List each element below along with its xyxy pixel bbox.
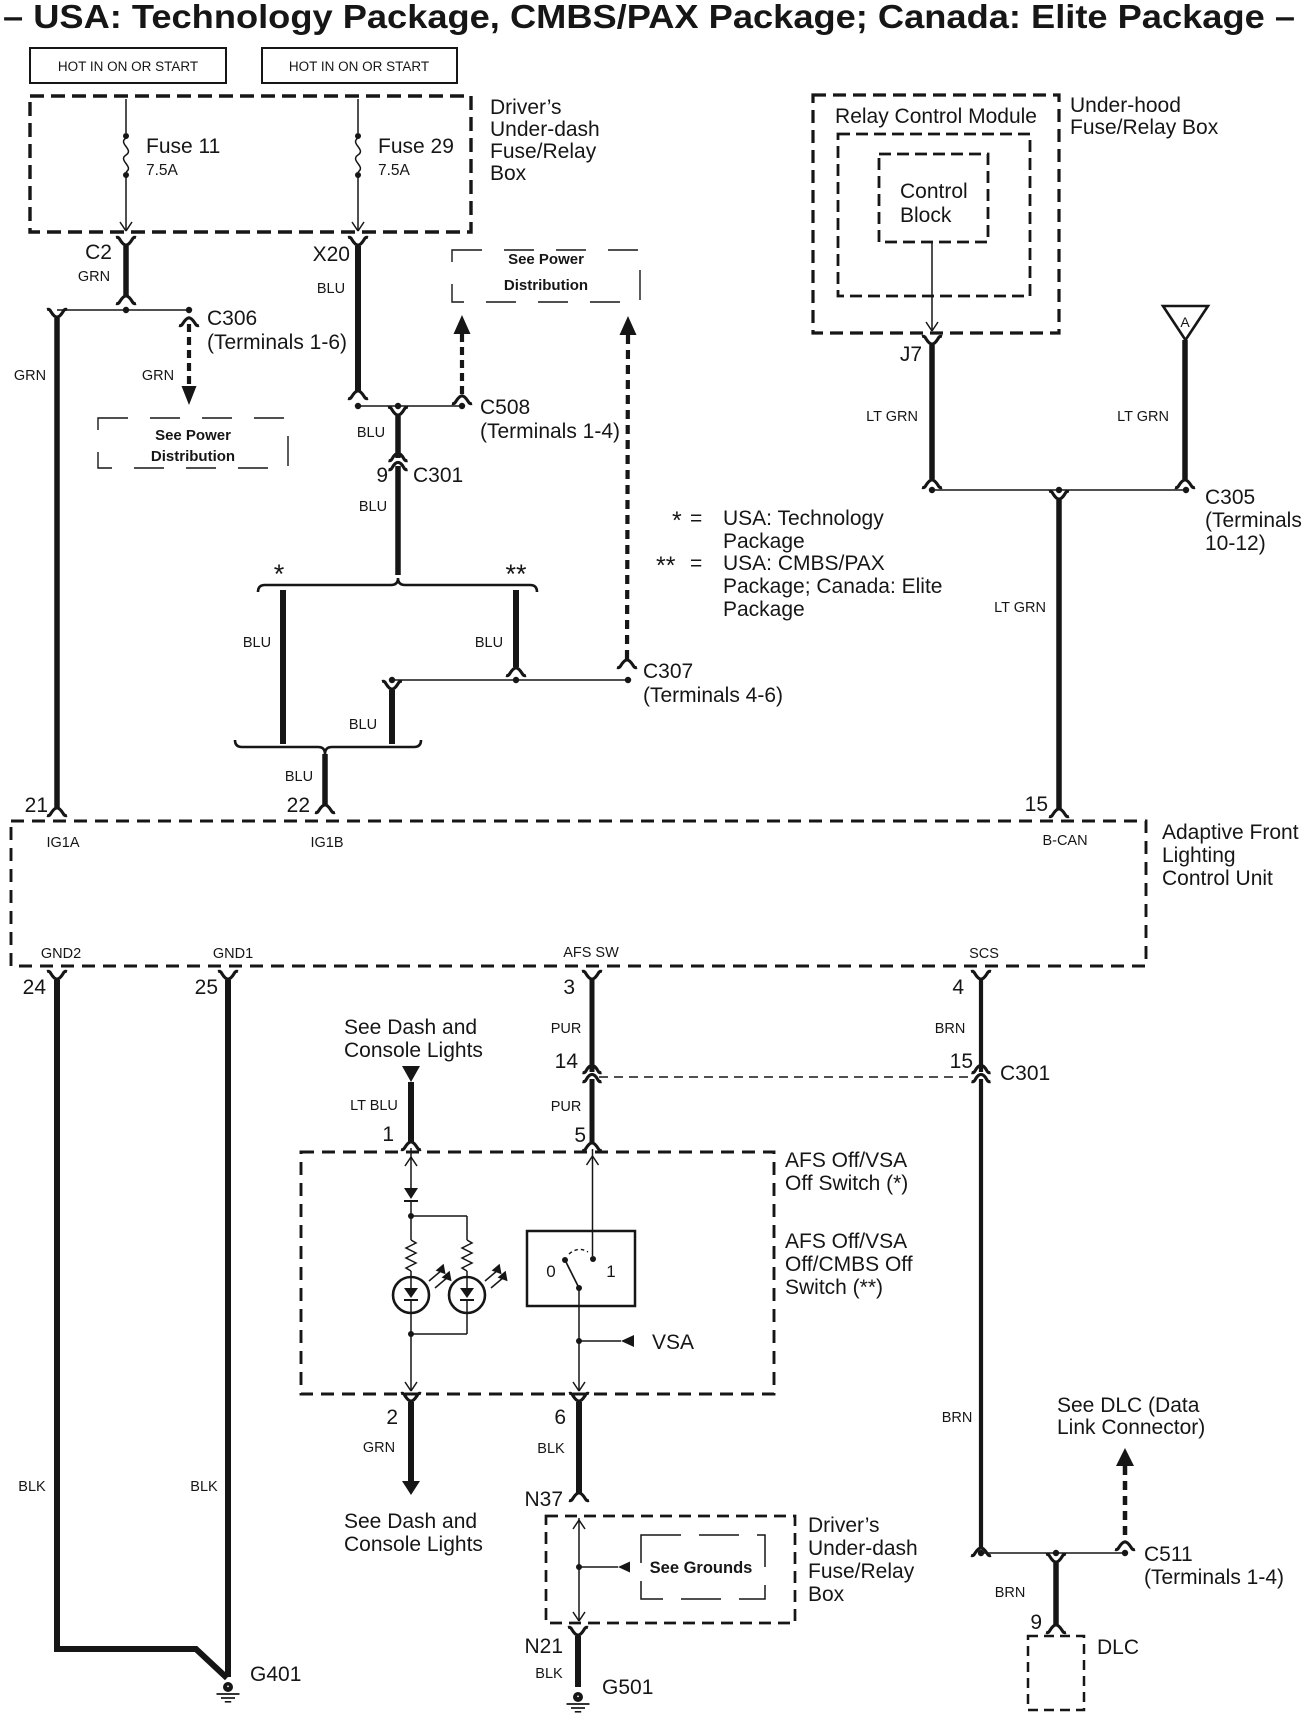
svg-text:**: ** bbox=[505, 559, 527, 589]
svg-text:N37: N37 bbox=[524, 1488, 563, 1511]
svg-text:0: 0 bbox=[546, 1262, 555, 1281]
svg-text:C305: C305 bbox=[1205, 486, 1255, 509]
svg-text:C301: C301 bbox=[413, 464, 463, 487]
svg-text:Driver’s: Driver’s bbox=[808, 1514, 880, 1537]
svg-text:Fuse 11: Fuse 11 bbox=[146, 135, 220, 158]
svg-text:Lighting: Lighting bbox=[1162, 844, 1236, 867]
svg-text:BLU: BLU bbox=[349, 717, 377, 733]
svg-text:Package; Canada: Elite: Package; Canada: Elite bbox=[723, 575, 942, 598]
svg-text:24: 24 bbox=[23, 976, 47, 999]
svg-text:See Power: See Power bbox=[508, 251, 584, 268]
svg-text:Under-hood: Under-hood bbox=[1070, 94, 1181, 117]
svg-text:C301: C301 bbox=[1000, 1062, 1050, 1085]
svg-text:HOT IN ON OR START: HOT IN ON OR START bbox=[289, 59, 429, 74]
svg-text:Package: Package bbox=[723, 530, 805, 553]
svg-text:25: 25 bbox=[195, 976, 218, 999]
svg-text:C2: C2 bbox=[85, 241, 112, 264]
svg-text:Fuse/Relay: Fuse/Relay bbox=[808, 1560, 915, 1583]
svg-text:BLK: BLK bbox=[535, 1666, 563, 1682]
svg-text:IG1A: IG1A bbox=[46, 835, 79, 851]
svg-text:See Dash and: See Dash and bbox=[344, 1016, 477, 1039]
svg-text:J7: J7 bbox=[900, 343, 922, 366]
svg-text:X20: X20 bbox=[313, 243, 350, 266]
svg-text:BLK: BLK bbox=[537, 1441, 565, 1457]
svg-text:10-12): 10-12) bbox=[1205, 532, 1266, 555]
svg-text:Off/CMBS Off: Off/CMBS Off bbox=[785, 1253, 913, 1276]
svg-text:*: * bbox=[672, 507, 682, 535]
svg-text:**: ** bbox=[656, 552, 676, 580]
svg-text:=: = bbox=[690, 552, 702, 575]
svg-text:BLK: BLK bbox=[18, 1479, 46, 1495]
svg-text:C508: C508 bbox=[480, 396, 530, 419]
svg-text:Console Lights: Console Lights bbox=[344, 1039, 483, 1062]
svg-text:– USA: Technology Package, CMB: – USA: Technology Package, CMBS/PAX Pack… bbox=[3, 0, 1295, 35]
svg-text:22: 22 bbox=[287, 794, 310, 817]
svg-text:Fuse/Relay: Fuse/Relay bbox=[490, 140, 597, 163]
svg-text:Console Lights: Console Lights bbox=[344, 1533, 483, 1556]
svg-text:LT GRN: LT GRN bbox=[866, 409, 918, 425]
svg-text:DLC: DLC bbox=[1097, 1636, 1139, 1659]
svg-text:(Terminals 1-6): (Terminals 1-6) bbox=[207, 331, 347, 354]
svg-text:=: = bbox=[690, 507, 702, 530]
svg-text:SCS: SCS bbox=[969, 946, 999, 962]
svg-text:9: 9 bbox=[1030, 1611, 1042, 1634]
svg-text:C307: C307 bbox=[643, 660, 693, 683]
svg-text:Control: Control bbox=[900, 180, 968, 203]
svg-text:BLU: BLU bbox=[359, 499, 387, 515]
svg-text:USA: Technology: USA: Technology bbox=[723, 507, 884, 530]
svg-text:5: 5 bbox=[574, 1124, 586, 1147]
svg-text:USA: CMBS/PAX: USA: CMBS/PAX bbox=[723, 552, 885, 575]
svg-text:BLU: BLU bbox=[317, 281, 345, 297]
svg-text:Under-dash: Under-dash bbox=[490, 118, 600, 141]
svg-text:Box: Box bbox=[808, 1583, 845, 1606]
svg-text:BRN: BRN bbox=[935, 1021, 966, 1037]
svg-text:BLK: BLK bbox=[190, 1479, 218, 1495]
svg-text:21: 21 bbox=[25, 794, 48, 817]
svg-text:15: 15 bbox=[1025, 793, 1048, 816]
svg-text:C511: C511 bbox=[1144, 1543, 1193, 1566]
svg-text:6: 6 bbox=[554, 1406, 566, 1429]
svg-text:PUR: PUR bbox=[551, 1021, 582, 1037]
svg-text:Fuse 29: Fuse 29 bbox=[378, 135, 454, 158]
svg-text:Driver’s: Driver’s bbox=[490, 96, 562, 119]
svg-text:See Grounds: See Grounds bbox=[650, 1559, 753, 1577]
svg-text:LT GRN: LT GRN bbox=[994, 600, 1046, 616]
svg-text:VSA: VSA bbox=[652, 1331, 694, 1354]
svg-text:N21: N21 bbox=[524, 1635, 563, 1658]
svg-text:GRN: GRN bbox=[363, 1440, 395, 1456]
svg-text:GRN: GRN bbox=[78, 269, 110, 285]
svg-text:Control Unit: Control Unit bbox=[1162, 867, 1273, 890]
svg-text:GND2: GND2 bbox=[41, 946, 81, 962]
svg-text:1: 1 bbox=[382, 1123, 394, 1146]
svg-text:BLU: BLU bbox=[285, 769, 313, 785]
svg-text:B-CAN: B-CAN bbox=[1042, 833, 1087, 849]
svg-text:IG1B: IG1B bbox=[310, 835, 343, 851]
svg-text:7.5A: 7.5A bbox=[146, 162, 179, 179]
svg-text:(Terminals 1-4): (Terminals 1-4) bbox=[480, 420, 620, 443]
svg-text:(Terminals 4-6): (Terminals 4-6) bbox=[643, 684, 783, 707]
svg-text:Distribution: Distribution bbox=[504, 277, 588, 294]
svg-text:BRN: BRN bbox=[995, 1585, 1026, 1601]
svg-text:BLU: BLU bbox=[357, 425, 385, 441]
svg-text:Off Switch (*): Off Switch (*) bbox=[785, 1172, 908, 1195]
svg-text:Block: Block bbox=[900, 204, 952, 227]
svg-text:BLU: BLU bbox=[475, 635, 503, 651]
svg-text:G501: G501 bbox=[602, 1676, 653, 1699]
svg-text:Box: Box bbox=[490, 162, 527, 185]
svg-text:See Power: See Power bbox=[155, 427, 231, 444]
svg-text:BRN: BRN bbox=[942, 1410, 973, 1426]
svg-text:1: 1 bbox=[606, 1262, 615, 1281]
svg-text:7.5A: 7.5A bbox=[378, 162, 411, 179]
svg-text:Adaptive Front: Adaptive Front bbox=[1162, 821, 1299, 844]
svg-text:HOT IN ON OR START: HOT IN ON OR START bbox=[58, 59, 198, 74]
svg-text:14: 14 bbox=[555, 1050, 579, 1073]
svg-text:AFS SW: AFS SW bbox=[563, 945, 619, 961]
svg-text:*: * bbox=[274, 559, 285, 589]
svg-text:Switch (**): Switch (**) bbox=[785, 1276, 883, 1299]
svg-text:LT GRN: LT GRN bbox=[1117, 409, 1169, 425]
svg-text:GND1: GND1 bbox=[213, 946, 253, 962]
svg-text:2: 2 bbox=[386, 1406, 398, 1429]
svg-text:Link Connector): Link Connector) bbox=[1057, 1416, 1205, 1439]
svg-text:See DLC (Data: See DLC (Data bbox=[1057, 1394, 1200, 1417]
svg-text:PUR: PUR bbox=[551, 1099, 582, 1115]
svg-text:3: 3 bbox=[563, 976, 575, 999]
svg-text:AFS Off/VSA: AFS Off/VSA bbox=[785, 1230, 907, 1253]
svg-text:BLU: BLU bbox=[243, 635, 271, 651]
svg-text:9: 9 bbox=[376, 464, 388, 487]
svg-text:LT BLU: LT BLU bbox=[350, 1098, 398, 1114]
svg-text:Under-dash: Under-dash bbox=[808, 1537, 918, 1560]
svg-text:(Terminals 1-4): (Terminals 1-4) bbox=[1144, 1566, 1284, 1589]
svg-text:4: 4 bbox=[952, 976, 964, 999]
svg-text:Fuse/Relay Box: Fuse/Relay Box bbox=[1070, 116, 1219, 139]
svg-text:15: 15 bbox=[950, 1050, 973, 1073]
svg-text:(Terminals: (Terminals bbox=[1205, 509, 1302, 532]
svg-text:Package: Package bbox=[723, 598, 805, 621]
svg-text:AFS Off/VSA: AFS Off/VSA bbox=[785, 1149, 907, 1172]
svg-text:See Dash and: See Dash and bbox=[344, 1510, 477, 1533]
svg-text:GRN: GRN bbox=[14, 368, 46, 384]
svg-text:G401: G401 bbox=[250, 1663, 301, 1686]
svg-text:Relay Control Module: Relay Control Module bbox=[835, 105, 1037, 128]
svg-text:C306: C306 bbox=[207, 307, 257, 330]
svg-text:A: A bbox=[1180, 314, 1190, 330]
svg-text:Distribution: Distribution bbox=[151, 448, 235, 465]
svg-text:GRN: GRN bbox=[142, 368, 174, 384]
